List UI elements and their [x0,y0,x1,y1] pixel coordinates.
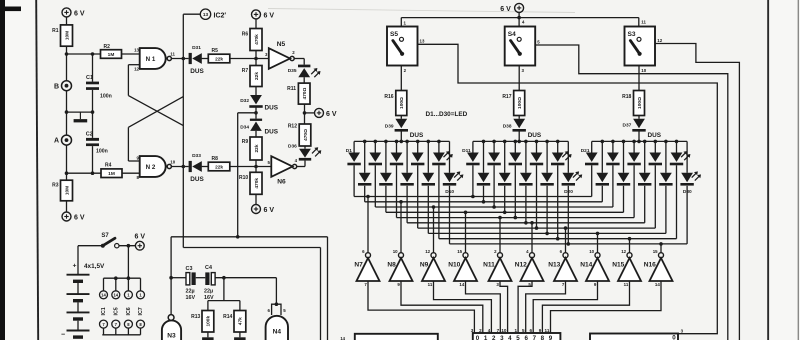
svg-text:4: 4 [488,328,491,333]
diode D37 [622,119,661,139]
svg-text:10: 10 [501,328,507,333]
wire [466,281,501,333]
resistor R12 [288,123,311,146]
LED D25 [670,141,691,238]
terminal A [54,135,72,145]
LED D30 [680,141,701,244]
wire [202,332,214,340]
svg-text:D1: D1 [346,148,352,154]
wire [518,281,532,333]
power +6V (below R3) [62,212,85,222]
diode D38 [503,119,542,139]
svg-text:470k: 470k [254,34,260,45]
inverter N12 [515,249,544,287]
svg-text:6 V: 6 V [500,6,511,13]
LED D17 [498,141,511,212]
wire cathode bus line 2 [365,200,603,204]
wire [122,53,140,55]
LED D14 [530,141,543,228]
wire cathode bus line 4 [386,211,624,215]
wire S4 pin3 [519,66,524,91]
svg-text:100n: 100n [96,148,108,154]
wire cathode bus line 1 [354,195,592,199]
svg-text:1M: 1M [108,171,115,177]
LED D19 [540,141,553,233]
svg-text:DUS: DUS [265,129,279,136]
wire [303,104,315,124]
svg-text:100Ω: 100Ω [637,97,643,109]
LED D26 [596,141,609,201]
LED D7 [379,141,392,212]
power +6V (LED mid) [315,108,337,118]
LED D13 [509,141,522,217]
svg-text:D11: D11 [462,148,471,154]
svg-text:−: − [61,332,65,339]
svg-text:6 V: 6 V [135,234,146,241]
LED D35 [288,65,321,78]
resistor R7 [242,66,262,87]
LED D28 [638,141,651,222]
wire S5 pin2 [401,66,406,91]
svg-text:12: 12 [657,38,662,43]
resistor R17 [502,91,524,116]
wire [367,197,369,253]
svg-text:C4: C4 [205,265,212,271]
wire cathode bus line 9 [439,237,677,241]
wire [202,166,209,168]
wire [66,91,68,135]
svg-text:1: 1 [484,335,488,340]
svg-text:R4: R4 [105,162,112,168]
LED D8 [400,141,413,222]
svg-text:N9: N9 [420,261,429,268]
wire [303,77,305,83]
svg-text:N4: N4 [273,328,282,335]
LED D2 [369,141,382,207]
wire [238,113,256,237]
wire net L [183,248,320,340]
wire cathode bus line 7 [418,226,656,230]
svg-text:5: 5 [516,335,520,340]
supply pins IC7 [137,278,145,335]
frame border left [36,0,38,340]
svg-text:D21: D21 [581,148,590,154]
wire [368,281,474,333]
svg-text:22k: 22k [215,56,223,62]
svg-text:S4: S4 [508,31,516,38]
svg-text:DUS: DUS [190,176,204,183]
svg-text:100k: 100k [206,316,212,327]
wire cap row [171,276,276,304]
wire [255,51,257,66]
svg-text:14: 14 [340,336,345,340]
LED D16 [477,141,490,201]
svg-text:15: 15 [653,249,658,254]
terminal B [54,81,72,91]
svg-text:8: 8 [541,335,545,340]
switch S3 [625,27,656,66]
capacitor C3 [186,266,196,301]
LED D4 [411,141,424,228]
svg-text:6: 6 [530,328,533,333]
svg-text:N12: N12 [515,261,527,268]
inverter N9 [420,249,445,287]
wire [255,19,257,29]
svg-text:11: 11 [641,19,646,24]
svg-text:10: 10 [393,249,398,254]
resistor R13 [191,311,214,333]
NAND gate N1 [134,48,175,72]
svg-text:C2: C2 [86,131,93,137]
page border right [767,0,769,340]
supply pins IC1 [100,278,108,335]
svg-text:IC5: IC5 [114,307,120,315]
resistor R1 [52,25,72,46]
LED D18 [519,141,532,222]
svg-text:D10: D10 [445,189,454,195]
resistor R9 [242,137,262,160]
svg-text:10M: 10M [64,186,70,195]
svg-text:13: 13 [420,39,425,44]
svg-text:13: 13 [134,48,139,53]
wire [518,131,520,141]
inverter N11 [483,249,511,287]
NAND gate N4 [266,302,288,340]
svg-text:R3: R3 [52,183,59,189]
wire [92,54,94,138]
wire cross-couple A [128,65,183,126]
svg-text:D32: D32 [240,98,249,104]
svg-text:100n: 100n [100,94,112,100]
svg-text:+: + [73,263,77,270]
svg-text:R17: R17 [502,94,511,100]
svg-text:10M: 10M [64,31,70,40]
wire [255,131,257,137]
NAND gate N3 [162,315,181,340]
wire [597,233,599,253]
inverter N15 [612,249,641,287]
svg-text:R18: R18 [622,94,631,100]
wire [660,244,662,253]
wire anode rail group 1 [354,140,449,144]
capacitor C1 [86,75,112,100]
svg-text:DUS: DUS [190,68,204,75]
svg-text:R8: R8 [212,156,219,162]
IC counter (middle) [471,328,561,340]
svg-text:R6: R6 [242,31,249,37]
wire cathode bus line 6 [407,221,645,225]
wire [234,332,246,340]
wire [400,131,402,141]
svg-text:12: 12 [425,249,430,254]
svg-text:10: 10 [641,68,646,73]
svg-text:N 1: N 1 [146,56,156,63]
resistor R8 [208,156,230,171]
switch S4 [505,27,536,66]
svg-text:2: 2 [492,335,496,340]
inverter N16 [644,249,673,287]
LED D9 [422,141,435,233]
wire [565,228,567,253]
LED D6 [358,141,371,201]
svg-text:S3: S3 [628,31,636,38]
scan artifact line [268,9,575,13]
svg-text:100Ω: 100Ω [399,97,405,109]
svg-text:11: 11 [545,328,550,333]
wire cathode bus line 3 [375,205,613,209]
wire [66,17,68,25]
power +6V (S7) [135,234,146,251]
resistor R16 [384,91,406,116]
svg-text:470k: 470k [254,178,260,189]
svg-text:11: 11 [428,282,433,287]
svg-text:DUS: DUS [265,104,279,111]
diode D39 [385,119,424,139]
svg-text:4x1,5V: 4x1,5V [84,263,105,270]
wire supply bus [104,246,141,280]
svg-text:4: 4 [508,335,512,340]
svg-text:22µ: 22µ [204,288,213,294]
wire [551,281,662,333]
svg-text:D20: D20 [564,189,573,195]
svg-text:DUS: DUS [528,132,542,139]
svg-text:R1: R1 [52,28,59,34]
svg-text:6 V: 6 V [74,11,85,18]
wire [230,165,271,169]
svg-text:S7: S7 [101,233,109,239]
wire [531,223,533,253]
LED D15 [551,141,572,238]
svg-text:D31: D31 [192,45,201,51]
buffer N6 [268,156,298,185]
wire [230,57,269,61]
svg-text:6 V: 6 V [264,207,275,214]
svg-text:D1...D30=LED: D1...D30=LED [426,111,468,118]
svg-text:D38: D38 [503,123,512,129]
resistor R14 [223,311,246,333]
svg-text:N11: N11 [483,261,495,268]
IC (bottom left) [340,334,437,340]
LED D20 [562,141,583,244]
power +6V (switch bus) [500,3,523,13]
capacitor C4 [204,265,215,301]
svg-text:N5: N5 [277,41,286,48]
wire [171,57,188,61]
svg-text:11: 11 [170,51,175,56]
LED D23 [627,141,640,217]
wire [66,54,68,81]
wire [500,281,508,333]
diode D32 [240,95,279,111]
resistor R6 [242,29,262,51]
LED D3 [390,141,403,217]
ground [74,112,88,122]
inverter N13 [548,249,577,287]
svg-text:D37: D37 [622,122,631,128]
resistor R3 [52,180,72,201]
LED D10 [443,141,464,244]
svg-text:22k: 22k [215,164,223,170]
wire [499,218,501,253]
svg-text:1M: 1M [108,52,115,58]
LED D21 [581,141,599,196]
svg-text:16V: 16V [204,295,214,301]
inverter N10 [448,249,477,287]
svg-text:100Ω: 100Ω [517,97,523,109]
svg-text:R11: R11 [287,86,296,92]
svg-text:6 V: 6 V [264,13,275,20]
LED D1 [346,141,361,196]
svg-text:11: 11 [624,282,629,287]
wire [294,59,304,65]
svg-text:R14: R14 [223,314,232,320]
wire [400,202,402,253]
svg-text:B: B [54,83,59,90]
wire S3 pin12 route [655,38,739,340]
wire S5 pin13 route [418,39,718,334]
svg-text:D30: D30 [683,189,692,195]
power +6V (below R10) [252,205,275,215]
svg-text:14: 14 [101,293,106,298]
wire net K [169,235,327,340]
svg-text:N16: N16 [644,261,656,268]
svg-text:N3: N3 [167,332,176,339]
wire anode rail group 3 [592,140,687,144]
svg-text:C3: C3 [186,266,193,272]
svg-text:R9: R9 [242,139,249,145]
svg-text:3: 3 [500,335,504,340]
LED D29 [659,141,672,233]
resistor R4 [101,162,122,177]
resistor R5 [208,48,230,63]
svg-text:R13: R13 [191,314,200,320]
LED D27 [617,141,630,212]
power +6V (above R6) [252,10,275,20]
svg-text:D33: D33 [192,153,201,159]
svg-text:13: 13 [203,12,209,17]
svg-text:D39: D39 [385,123,394,129]
svg-text:6 V: 6 V [74,215,85,222]
wire [171,165,188,169]
buffer N5 [265,41,295,69]
LED D5 [432,141,453,238]
wire cathode bus line 10 [450,242,688,246]
inverter N8 [387,249,412,287]
power +6V (top left) [62,8,85,18]
LED D36 [288,143,321,160]
wire [526,281,566,333]
switch S5 [387,27,418,66]
svg-text:N15: N15 [612,261,624,268]
wire [202,58,209,60]
wire [401,281,483,333]
svg-text:14: 14 [113,293,118,298]
LED D22 [606,141,619,207]
svg-text:470Ω: 470Ω [302,88,308,100]
resistor R2 [101,44,122,59]
supply pins IC6 [124,278,132,335]
svg-text:0: 0 [672,335,676,340]
svg-text:1: 1 [514,328,517,333]
svg-text:22µ: 22µ [186,288,195,294]
wire [182,14,184,247]
svg-text:N8: N8 [387,261,396,268]
wire [65,145,101,175]
svg-text:12: 12 [621,249,626,254]
NAND gate N2 [137,156,176,180]
svg-text:47k: 47k [238,317,244,325]
svg-text:10: 10 [589,249,594,254]
svg-text:IC2′: IC2′ [214,12,227,19]
wire [297,161,305,167]
inverter N7 [354,249,379,287]
page edge black bar [0,0,5,340]
svg-text:22k: 22k [254,144,260,152]
svg-text:N13: N13 [548,261,560,268]
svg-text:15: 15 [457,249,462,254]
svg-text:3: 3 [471,328,474,333]
svg-text:DUS: DUS [648,132,662,139]
svg-text:0: 0 [476,335,480,340]
svg-text:9: 9 [539,328,542,333]
svg-text:DUS: DUS [410,132,424,139]
wire [638,131,640,141]
svg-text:12: 12 [134,66,139,71]
svg-text:N 2: N 2 [146,164,156,171]
svg-text:IC6: IC6 [126,307,132,315]
LED D24 [649,141,662,228]
svg-text:R2: R2 [104,44,111,50]
wire anode rail group 2 [473,140,568,144]
resistor R11 [287,83,310,104]
svg-text:IC7: IC7 [138,307,144,315]
wire cathode bus line 5 [397,216,635,220]
svg-text:D36: D36 [288,143,297,149]
svg-text:470Ω: 470Ω [303,129,309,141]
svg-text:7: 7 [533,335,537,340]
inverter N14 [580,249,609,287]
svg-text:10: 10 [170,159,175,164]
wire [255,160,257,172]
switch S7 [78,233,135,248]
left margin [5,0,36,340]
svg-text:R7: R7 [242,68,249,74]
diode D31 [189,45,205,75]
wire [66,173,68,212]
svg-text:5: 5 [522,328,525,333]
resistor R10 [239,172,262,194]
wire [434,281,492,333]
svg-text:N10: N10 [448,261,460,268]
wire [638,116,640,119]
battery 4x1.5V [61,246,105,339]
svg-text:22k: 22k [254,72,260,80]
LED D12 [487,141,500,207]
svg-text:D34: D34 [240,125,249,131]
capacitor C2 [86,131,108,154]
wire cross-couple B [128,97,183,161]
wire [465,212,467,253]
node junction row [65,110,95,114]
svg-text:6: 6 [524,335,528,340]
resistor R18 [622,91,644,116]
wire [518,116,520,119]
wire [400,116,402,119]
wire ground bus [102,334,140,336]
svg-text:2: 2 [479,328,482,333]
wire [255,87,257,96]
wire S3 pin10 [639,66,647,91]
